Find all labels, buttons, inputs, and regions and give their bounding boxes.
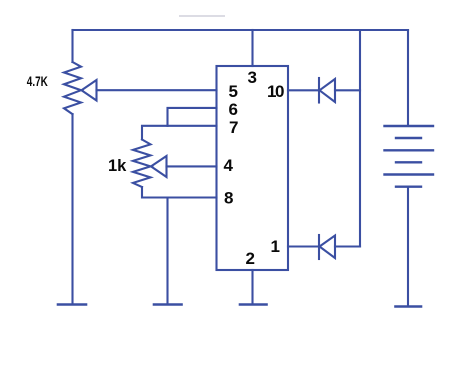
wire D2 to right rail bbox=[335, 245, 360, 247]
wire pin 6 bbox=[168, 108, 217, 126]
wire battery top bbox=[407, 30, 409, 126]
wire R1 wiper to pin 5 bbox=[97, 89, 217, 91]
diode D2 cathode bar bbox=[318, 235, 320, 259]
ground pin 2 bbox=[240, 303, 267, 306]
battery B1 plate long 3 bbox=[385, 173, 434, 175]
wire D1 to right rail bbox=[335, 89, 360, 91]
battery B1 plate long 1 bbox=[385, 125, 434, 127]
svg-text:6: 6 bbox=[229, 100, 238, 119]
wire right vertical rail bbox=[359, 30, 361, 247]
potentiometer R2 1k body bbox=[133, 140, 151, 188]
svg-text:5: 5 bbox=[229, 82, 238, 101]
svg-text:1: 1 bbox=[271, 237, 280, 256]
diode D1 cathode bar bbox=[318, 78, 320, 103]
wire left vertical upper bbox=[71, 30, 73, 62]
potentiometer R2 wiper arrow bbox=[151, 156, 167, 177]
wire battery bottom bbox=[407, 187, 409, 306]
ground middle bbox=[154, 303, 182, 306]
battery B1 plate short 3 bbox=[396, 185, 421, 187]
IC U1 body bbox=[217, 66, 289, 270]
battery B1 plate short 1 bbox=[396, 137, 421, 139]
wire left vertical lower bbox=[71, 114, 73, 303]
svg-text:1k: 1k bbox=[108, 157, 127, 175]
wire R2 wiper to pin 4 bbox=[167, 165, 217, 167]
potentiometer R1 4.7K body bbox=[64, 62, 81, 114]
wire top rail bbox=[73, 29, 409, 31]
svg-text:10: 10 bbox=[267, 82, 284, 101]
svg-text:4.7K: 4.7K bbox=[27, 74, 48, 89]
wire pin 2 to ground bbox=[251, 270, 253, 304]
diode D1 triangle bbox=[320, 79, 336, 102]
wire pin 3 to top rail bbox=[251, 30, 253, 66]
wire pin 10 stub bbox=[288, 89, 319, 91]
potentiometer R1 wiper arrow bbox=[82, 80, 97, 101]
svg-text:2: 2 bbox=[246, 249, 255, 268]
diode D2 triangle bbox=[320, 236, 336, 259]
ground battery bbox=[396, 305, 422, 308]
artifact line top bbox=[180, 15, 224, 17]
battery B1 plate long 2 bbox=[385, 149, 434, 151]
svg-text:4: 4 bbox=[224, 156, 234, 175]
battery B1 plate short 2 bbox=[396, 161, 421, 163]
ground left bbox=[58, 303, 86, 306]
svg-text:7: 7 bbox=[229, 118, 238, 137]
svg-text:3: 3 bbox=[248, 68, 257, 87]
wire pin 7 to R2 top bbox=[142, 126, 217, 140]
svg-text:8: 8 bbox=[224, 189, 233, 208]
wire pin 1 stub bbox=[288, 245, 319, 247]
wire pin 8 to R2 bottom bbox=[142, 187, 217, 198]
wire pin 8 net to ground bbox=[166, 198, 168, 304]
